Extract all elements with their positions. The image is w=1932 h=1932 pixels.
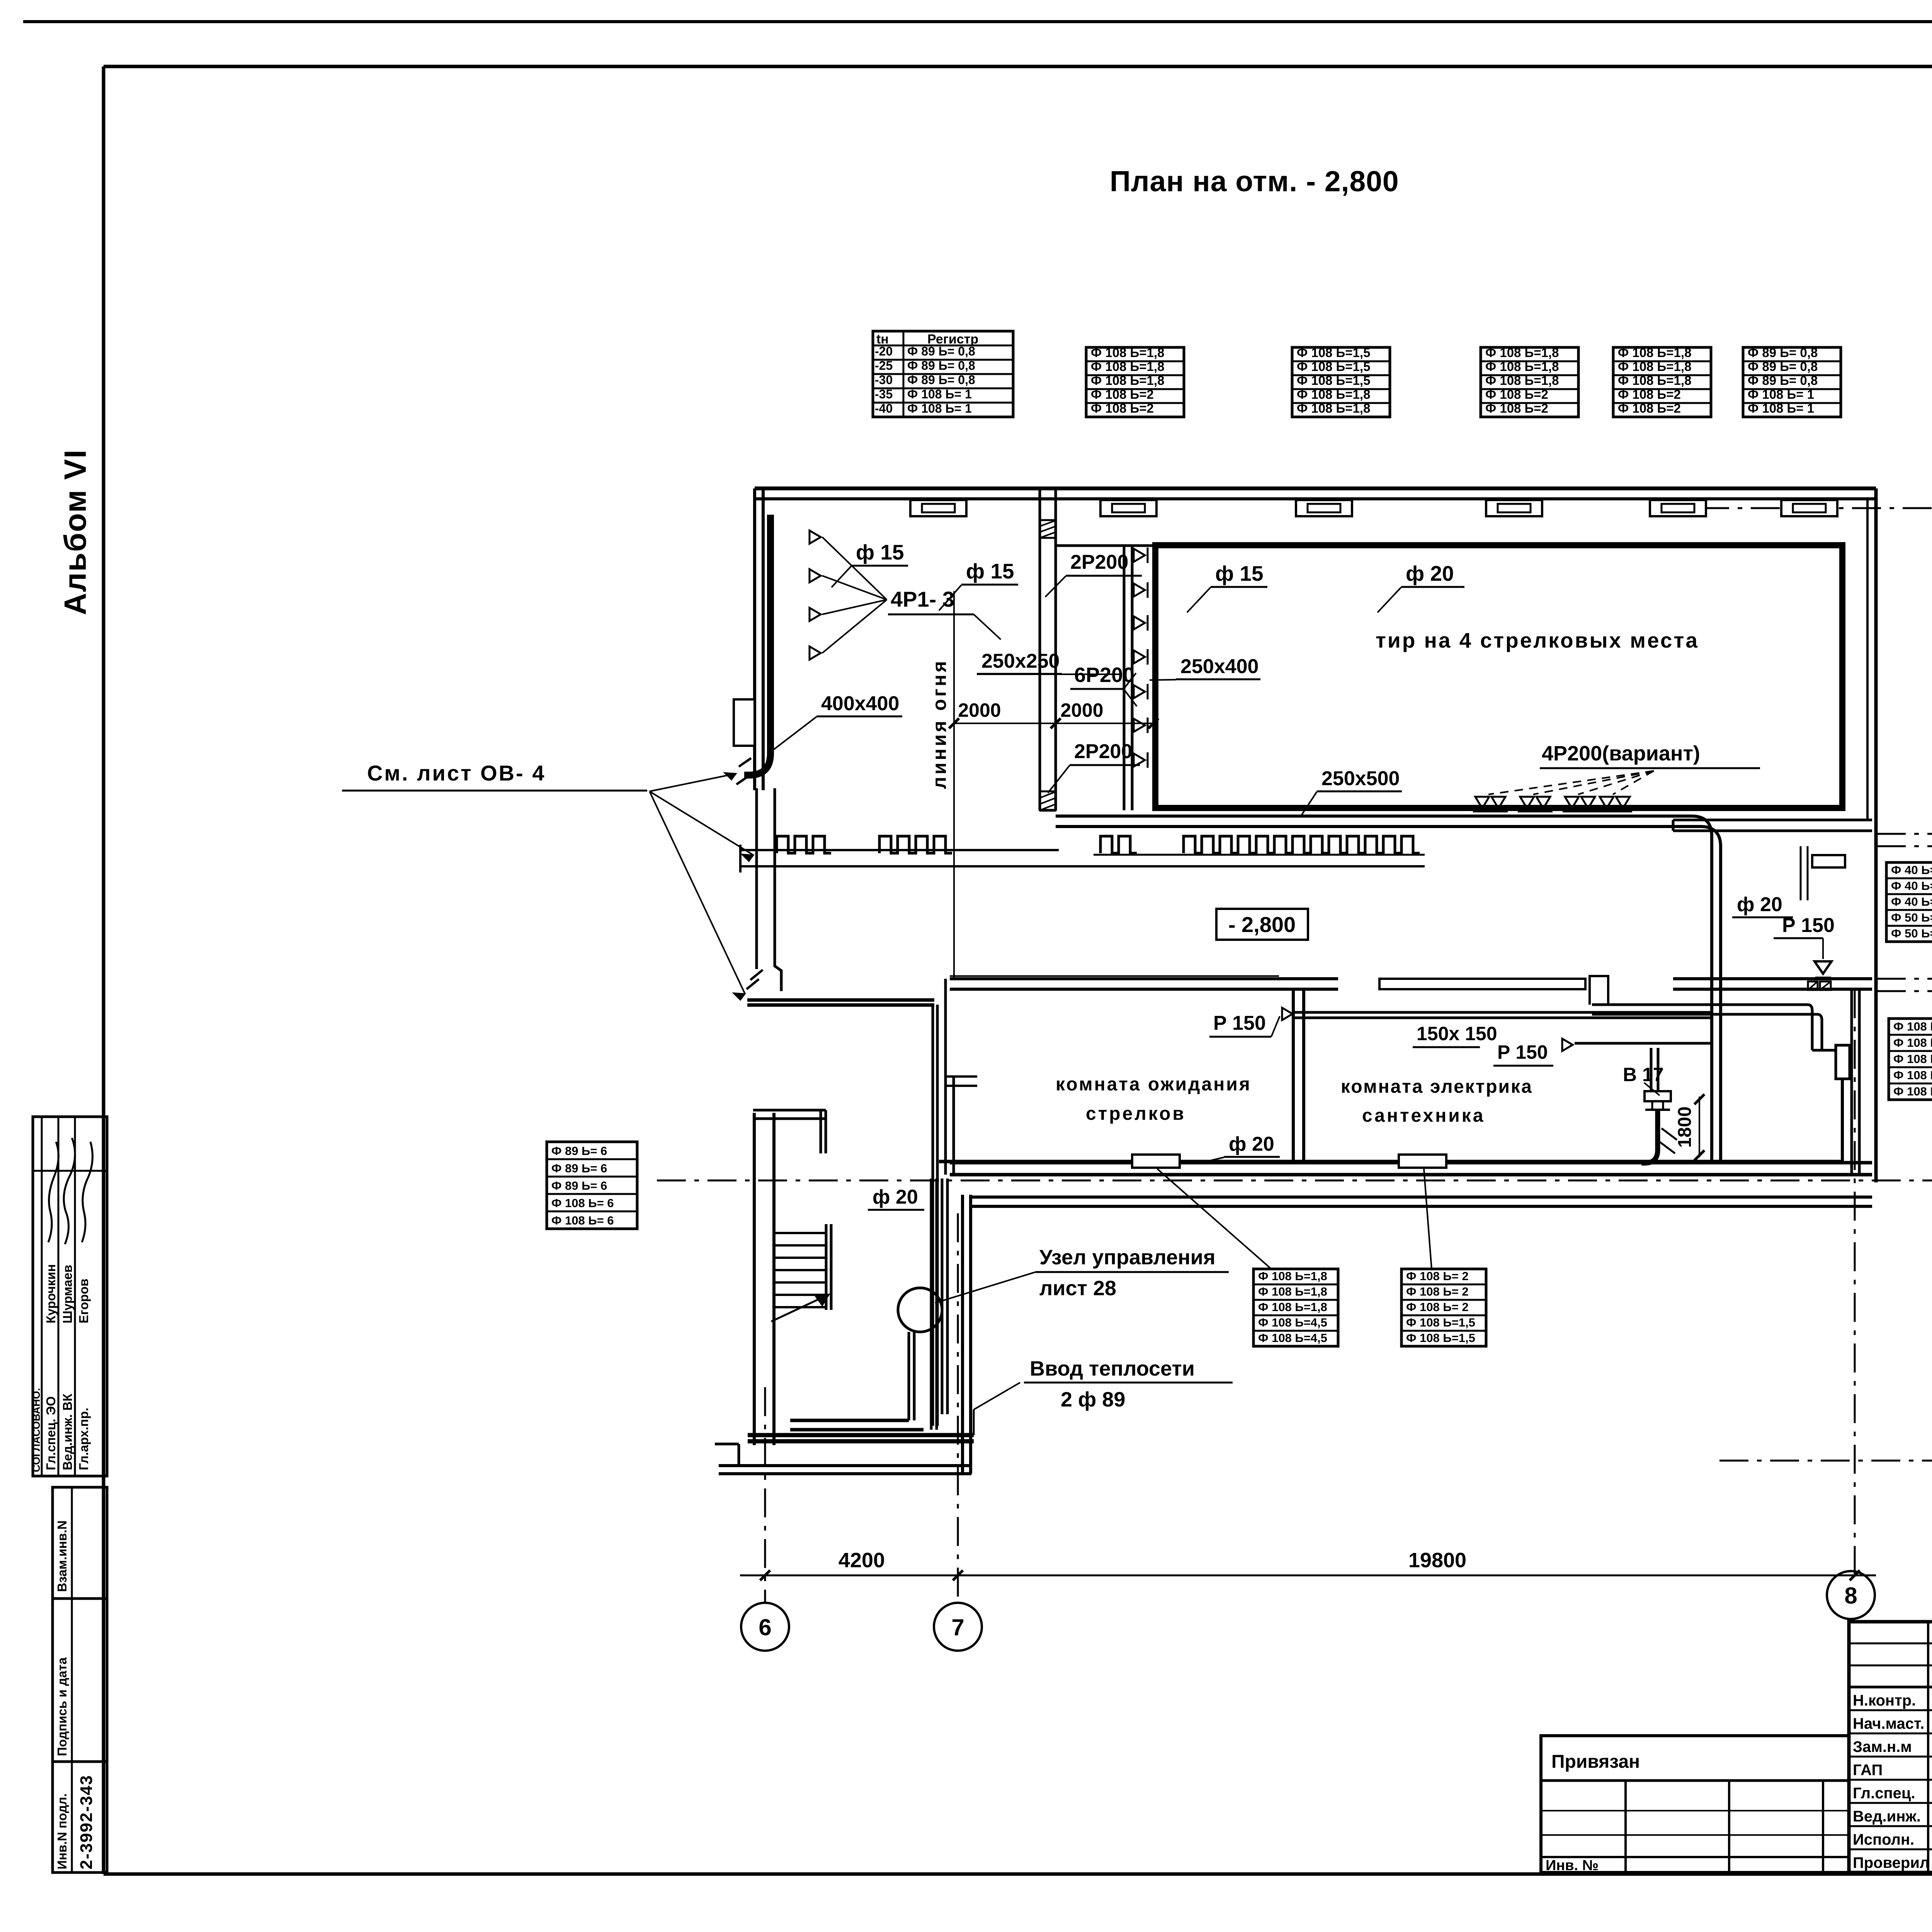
svg-text:Ф 108 Ь=1,5: Ф 108 Ь=1,5	[1297, 345, 1370, 360]
svg-text:7: 7	[951, 1614, 964, 1640]
svg-text:Гл.арх.пр.: Гл.арх.пр.	[77, 1408, 91, 1470]
svg-text:Ф 108 Ь= 2: Ф 108 Ь= 2	[1893, 1052, 1932, 1066]
svg-text:-30: -30	[875, 373, 893, 387]
svg-text:сантехника: сантехника	[1362, 1105, 1485, 1126]
svg-text:Ф 108 Ь=2: Ф 108 Ь=2	[1485, 387, 1548, 401]
svg-text:Р 150: Р 150	[1497, 1041, 1548, 1063]
svg-text:Ф 108 Ь=1,8: Ф 108 Ь=1,8	[1258, 1285, 1327, 1298]
svg-text:Ф 108 Ь=1,8: Ф 108 Ь=1,8	[1618, 359, 1691, 374]
svg-text:Взам.инв.N: Взам.инв.N	[55, 1520, 69, 1592]
svg-text:Ф 108 Ь= 2: Ф 108 Ь= 2	[1406, 1285, 1469, 1298]
svg-text:Ф 89 Ь= 0,8: Ф 89 Ь= 0,8	[1748, 373, 1818, 388]
svg-text:План на отм. - 2,800: План на отм. - 2,800	[1110, 165, 1399, 197]
svg-text:Ф 108 Ь=1,8: Ф 108 Ь=1,8	[1258, 1300, 1327, 1314]
svg-text:ф 15: ф 15	[966, 559, 1014, 583]
svg-text:400x400: 400x400	[821, 692, 899, 715]
svg-text:Ф 89 Ь= 6: Ф 89 Ь= 6	[551, 1162, 607, 1175]
svg-text:2Р200: 2Р200	[1070, 551, 1128, 573]
svg-text:Исполн.: Исполн.	[1853, 1831, 1914, 1848]
svg-text:стрелков: стрелков	[1086, 1104, 1186, 1124]
svg-text:Ф 108 Ь=1,8: Ф 108 Ь=1,8	[1485, 373, 1559, 388]
svg-text:ф 20: ф 20	[1229, 1133, 1274, 1155]
svg-text:Нач.маст.: Нач.маст.	[1853, 1715, 1924, 1732]
svg-text:2000: 2000	[1060, 699, 1103, 721]
svg-text:Ф 108 Ь=1,8: Ф 108 Ь=1,8	[1091, 345, 1164, 360]
svg-text:Ф 108 Ь= 1: Ф 108 Ь= 1	[907, 401, 972, 415]
svg-text:250x500: 250x500	[1321, 767, 1400, 790]
svg-text:Ф 108 Ь=1,8: Ф 108 Ь=1,8	[1485, 345, 1559, 360]
svg-text:Ф 108 Ь= 2,5: Ф 108 Ь= 2,5	[1893, 1068, 1932, 1082]
svg-text:комната ожидания: комната ожидания	[1056, 1074, 1252, 1095]
svg-text:Ввод теплосети: Ввод теплосети	[1030, 1357, 1195, 1380]
svg-text:Егоров: Егоров	[77, 1279, 91, 1323]
svg-text:Ф 108 Ь=2: Ф 108 Ь=2	[1091, 387, 1154, 401]
svg-text:Ф 50 Ь= 0,8: Ф 50 Ь= 0,8	[1891, 911, 1932, 924]
svg-text:- 2,800: - 2,800	[1228, 912, 1296, 937]
svg-text:Инв.N подл.: Инв.N подл.	[55, 1793, 69, 1869]
svg-text:Инв. №: Инв. №	[1546, 1857, 1599, 1874]
svg-text:Ф 108 Ь=1,5: Ф 108 Ь=1,5	[1297, 359, 1370, 374]
svg-text:ф 20: ф 20	[872, 1186, 918, 1208]
svg-text:Ф 108 Ь= 6: Ф 108 Ь= 6	[551, 1196, 614, 1210]
svg-text:Ф 108 Ь= 1: Ф 108 Ь= 1	[1748, 387, 1814, 401]
svg-text:ф 20: ф 20	[1406, 561, 1454, 585]
svg-text:250x250: 250x250	[981, 650, 1060, 672]
svg-text:СОГЛАСОВАНО.: СОГЛАСОВАНО.	[31, 1388, 42, 1472]
svg-text:Ф 108 Ь=1,5: Ф 108 Ь=1,5	[1297, 373, 1370, 388]
svg-text:Вед.инж.: Вед.инж.	[1853, 1808, 1921, 1825]
svg-text:2 ф 89: 2 ф 89	[1061, 1388, 1125, 1411]
svg-text:Ф 108 Ь=1,8: Ф 108 Ь=1,8	[1297, 387, 1370, 401]
svg-text:комната электрика: комната электрика	[1341, 1077, 1533, 1097]
svg-text:2-3992-343: 2-3992-343	[77, 1775, 96, 1869]
svg-text:Ф 89 Ь= 0,8: Ф 89 Ь= 0,8	[1748, 345, 1818, 360]
svg-text:Ф 89 Ь= 6: Ф 89 Ь= 6	[551, 1179, 607, 1192]
svg-text:6: 6	[759, 1614, 771, 1640]
svg-text:Ф 50 Ь= 0,8: Ф 50 Ь= 0,8	[1891, 927, 1932, 940]
svg-text:Ф 108 Ь=2: Ф 108 Ь=2	[1485, 401, 1548, 415]
svg-text:ГАП: ГАП	[1853, 1762, 1883, 1779]
svg-text:Ф 89 Ь= 0,8: Ф 89 Ь= 0,8	[907, 359, 975, 372]
svg-text:Ф 108 Ь=2: Ф 108 Ь=2	[1618, 387, 1681, 401]
svg-text:Ф 108 Ь=1,8: Ф 108 Ь=1,8	[1297, 401, 1370, 415]
svg-text:Ф 108 Ь=1,8: Ф 108 Ь=1,8	[1618, 345, 1691, 360]
svg-text:Привязан: Привязан	[1551, 1752, 1640, 1772]
svg-text:Ф 108 Ь=1,8: Ф 108 Ь=1,8	[1091, 359, 1164, 374]
svg-text:Альбом VI: Альбом VI	[58, 449, 92, 615]
svg-text:2000: 2000	[958, 699, 1001, 721]
svg-text:Н.контр.: Н.контр.	[1853, 1692, 1916, 1709]
svg-text:Ф 89 Ь= 0,8: Ф 89 Ь= 0,8	[907, 344, 975, 358]
svg-text:8: 8	[1844, 1583, 1857, 1609]
svg-text:ф 15: ф 15	[856, 540, 904, 564]
svg-text:Ф 108 Ь= 1: Ф 108 Ь= 1	[907, 387, 972, 401]
svg-text:2Р200: 2Р200	[1074, 740, 1132, 763]
svg-text:Курочкин: Курочкин	[44, 1264, 58, 1323]
svg-text:Ф 108 Ь=2: Ф 108 Ь=2	[1618, 401, 1681, 415]
svg-text:4Р1- 3: 4Р1- 3	[891, 587, 954, 611]
svg-text:Узел управления: Узел управления	[1039, 1246, 1215, 1269]
svg-text:-20: -20	[875, 344, 893, 358]
svg-text:Ф 108 Ь=4,5: Ф 108 Ь=4,5	[1258, 1331, 1327, 1345]
svg-text:Ф 108 Ь= 2: Ф 108 Ь= 2	[1893, 1020, 1932, 1033]
svg-text:Ф 40 Ь= 0,8: Ф 40 Ь= 0,8	[1891, 863, 1932, 877]
svg-text:Ф 108 Ь= 1: Ф 108 Ь= 1	[1748, 401, 1814, 415]
svg-text:Проверил: Проверил	[1853, 1854, 1929, 1871]
svg-text:Ф 108 Ь=1,8: Ф 108 Ь=1,8	[1618, 373, 1691, 388]
svg-text:Ф 108 Ь= 2,5: Ф 108 Ь= 2,5	[1893, 1085, 1932, 1098]
svg-text:Ф 108 Ь=1,5: Ф 108 Ь=1,5	[1406, 1316, 1475, 1329]
svg-text:150x 150: 150x 150	[1417, 1023, 1497, 1044]
svg-text:Ф 108 Ь=1,5: Ф 108 Ь=1,5	[1406, 1331, 1475, 1345]
svg-text:-35: -35	[875, 387, 893, 401]
svg-text:-40: -40	[875, 401, 893, 415]
svg-text:Шурмаев: Шурмаев	[60, 1265, 75, 1323]
svg-text:Ф 89 Ь= 6: Ф 89 Ь= 6	[551, 1144, 607, 1158]
svg-text:Подпись и дата: Подпись и дата	[55, 1657, 69, 1756]
svg-text:Ф 108 Ь=1,8: Ф 108 Ь=1,8	[1091, 373, 1164, 388]
svg-text:лист 28: лист 28	[1039, 1277, 1116, 1300]
svg-text:-25: -25	[875, 359, 893, 372]
svg-text:Ф 108 Ь= 2: Ф 108 Ь= 2	[1893, 1036, 1932, 1049]
svg-text:Ф 108 Ь=4,5: Ф 108 Ь=4,5	[1258, 1316, 1327, 1329]
svg-text:Ф 40 Ь= 0,8: Ф 40 Ь= 0,8	[1891, 879, 1932, 893]
svg-text:Ф 40 Ь= 0,8: Ф 40 Ь= 0,8	[1891, 895, 1932, 908]
svg-text:Ф 108 Ь=2: Ф 108 Ь=2	[1091, 401, 1154, 415]
svg-text:ф 15: ф 15	[1215, 561, 1264, 585]
svg-text:Зам.н.м: Зам.н.м	[1853, 1738, 1912, 1755]
svg-text:Гл.спец. ЭО: Гл.спец. ЭО	[44, 1396, 58, 1470]
svg-text:Ф 108 Ь=1,8: Ф 108 Ь=1,8	[1258, 1269, 1327, 1283]
svg-text:Ф 89 Ь= 0,8: Ф 89 Ь= 0,8	[1748, 359, 1818, 374]
svg-text:Гл.спец.: Гл.спец.	[1853, 1785, 1915, 1802]
svg-text:4Р200(вариант): 4Р200(вариант)	[1542, 742, 1700, 765]
svg-text:19800: 19800	[1408, 1549, 1466, 1572]
svg-text:линия огня: линия огня	[929, 659, 950, 789]
svg-text:4200: 4200	[838, 1549, 885, 1572]
svg-text:Вед.инж. ВК: Вед.инж. ВК	[60, 1393, 75, 1470]
svg-text:1800: 1800	[1675, 1107, 1695, 1148]
svg-text:Ф 89 Ь= 0,8: Ф 89 Ь= 0,8	[907, 373, 975, 387]
svg-text:См. лист ОВ- 4: См. лист ОВ- 4	[367, 761, 546, 785]
svg-text:Ф 108 Ь= 2: Ф 108 Ь= 2	[1406, 1269, 1469, 1283]
svg-text:Ф 108 Ь= 6: Ф 108 Ь= 6	[551, 1214, 614, 1227]
svg-text:250x400: 250x400	[1180, 655, 1259, 678]
svg-text:Р 150: Р 150	[1782, 914, 1835, 937]
svg-text:Ф 108 Ь=1,8: Ф 108 Ь=1,8	[1485, 359, 1559, 374]
svg-text:Р 150: Р 150	[1213, 1012, 1266, 1034]
svg-text:тир на 4 стрелковых места: тир на 4 стрелковых места	[1376, 628, 1699, 652]
svg-text:Ф 108 Ь= 2: Ф 108 Ь= 2	[1406, 1300, 1469, 1314]
svg-text:ф 20: ф 20	[1737, 893, 1782, 916]
svg-text:В 17: В 17	[1623, 1064, 1664, 1085]
